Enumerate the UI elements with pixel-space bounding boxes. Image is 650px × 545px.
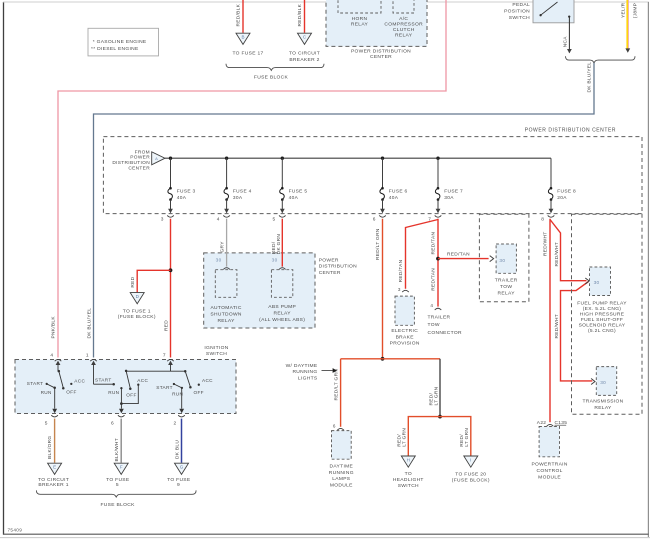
svg-text:POWER: POWER [319, 257, 339, 263]
pin 30 of trailer tow relay [490, 256, 494, 262]
svg-text:SWITCH: SWITCH [398, 483, 419, 489]
svg-text:LT GRN: LT GRN [464, 428, 470, 447]
svg-text:TO FUSE 1: TO FUSE 1 [123, 308, 151, 314]
svg-text:30A: 30A [233, 195, 243, 201]
svg-text:LT GRN: LT GRN [402, 428, 408, 447]
svg-text:6: 6 [373, 217, 376, 223]
electric brake provision box [395, 296, 414, 325]
svg-text:DAYTIME: DAYTIME [329, 463, 353, 469]
svg-text:DK BLU/YEL: DK BLU/YEL [587, 62, 593, 93]
svg-text:BREAKER 1: BREAKER 1 [38, 482, 68, 488]
svg-text:CONNECTOR: CONNECTOR [428, 330, 462, 336]
svg-text:SHUTDOWN: SHUTDOWN [210, 311, 242, 317]
switch 2 (pin 1) [93, 365, 95, 385]
svg-text:5: 5 [116, 482, 119, 488]
wire RED/LT GRN to headlight switch [408, 417, 440, 456]
fuse FUSE 3 40A [169, 157, 172, 160]
svg-text:BLK/WHT: BLK/WHT [114, 438, 120, 461]
svg-text:5: 5 [273, 217, 276, 223]
svg-text:RUNNING: RUNNING [329, 470, 354, 476]
svg-text:POWER: POWER [130, 155, 150, 161]
svg-text:2: 2 [174, 421, 177, 427]
svg-text:RED/LT GRN: RED/LT GRN [375, 228, 381, 260]
svg-text:BRAKE: BRAKE [396, 334, 415, 340]
svg-text:MODULE: MODULE [538, 474, 561, 480]
wire YEL/RED [626, 0, 628, 49]
wire GRY from fuse 4 [226, 219, 228, 267]
svg-text:RED/WHT: RED/WHT [542, 232, 548, 256]
svg-text:LAMPS: LAMPS [332, 476, 351, 482]
connector B [236, 33, 250, 44]
svg-text:HIGH PRESSURE: HIGH PRESSURE [580, 312, 625, 318]
pedal position switch box [533, 0, 574, 23]
svg-text:CENTER: CENTER [319, 270, 341, 276]
fuel pump relay box [590, 267, 611, 296]
svg-text:CLUTCH: CLUTCH [393, 27, 415, 33]
svg-text:RED/TAN: RED/TAN [398, 259, 404, 282]
wire RED/WHT from fuse 8 to powertrain control module [549, 219, 551, 423]
wire BLK/WHT to fuse 5 [120, 419, 122, 463]
svg-text:RUN: RUN [41, 390, 52, 395]
svg-text:9: 9 [177, 482, 180, 488]
svg-text:RED/BLK: RED/BLK [235, 3, 241, 26]
svg-text:START: START [27, 381, 44, 386]
daytime running lamps module box [332, 431, 352, 460]
svg-text:20A: 20A [557, 195, 567, 201]
svg-text:ACC: ACC [137, 378, 148, 383]
switch 3 contact link [174, 384, 182, 388]
svg-text:TO CIRCUIT: TO CIRCUIT [289, 50, 320, 56]
connector D [130, 293, 144, 304]
svg-text:AUTOMATIC: AUTOMATIC [210, 305, 241, 311]
switch 2 ACC branch [121, 385, 138, 404]
svg-text:LIGHTS: LIGHTS [298, 376, 318, 382]
pedal switch contacts and lever [539, 14, 541, 16]
fuse FUSE 7 30A [436, 157, 439, 160]
wire DK BLU to fuse 9 [181, 419, 183, 463]
arrow pointing to daytime wire [322, 370, 333, 372]
svg-text:RELAY: RELAY [594, 405, 612, 411]
pin 30 of ABS pump relay [279, 268, 286, 270]
svg-text:IGNITION: IGNITION [204, 345, 228, 351]
switch 1 output to pin 5 [54, 388, 56, 409]
power distribution center box (right relays) [572, 214, 643, 414]
svg-text:OFF: OFF [126, 393, 136, 398]
svg-text:TO FUSE: TO FUSE [106, 477, 130, 483]
pin 30 of transmission relay [591, 379, 595, 385]
svg-text:3: 3 [161, 217, 164, 223]
svg-text:30A: 30A [444, 195, 454, 201]
svg-text:40A: 40A [289, 195, 299, 201]
svg-text:** DIESEL ENGINE: ** DIESEL ENGINE [91, 46, 139, 52]
svg-text:RED/LT GRN: RED/LT GRN [333, 369, 339, 401]
svg-text:RED/TAN: RED/TAN [447, 251, 470, 257]
wire RED/LT GRN (drawn dark) down to junction [439, 359, 441, 417]
svg-text:RELAY: RELAY [395, 32, 413, 38]
svg-text:RED/: RED/ [428, 392, 434, 405]
svg-text:TO FUSE 20: TO FUSE 20 [455, 472, 486, 478]
svg-text:RUN: RUN [108, 390, 119, 395]
fuse block brace (bottom) [36, 490, 196, 497]
fuse FUSE 6 40A [381, 157, 384, 160]
node junction headlight feed [438, 415, 442, 419]
pin 3 of electric brake provision [402, 290, 409, 292]
svg-text:PROVISION: PROVISION [390, 340, 420, 346]
svg-text:TOW: TOW [500, 284, 512, 290]
svg-text:TRAILER: TRAILER [428, 314, 451, 320]
pin 4 trailer tow connector [435, 308, 442, 310]
svg-text:GRY: GRY [219, 241, 225, 253]
wire RED/BLK to circuit breaker 2 [304, 0, 306, 33]
svg-text:RELAY: RELAY [217, 318, 235, 324]
svg-text:OFF: OFF [66, 389, 76, 394]
svg-text:40A: 40A [389, 195, 399, 201]
svg-text:30: 30 [272, 258, 278, 263]
wire RED/TAN from fuse 7 to trailer tow connector [437, 219, 439, 307]
wire RED from fuse 3 to ignition switch pin 7 [170, 219, 172, 358]
svg-text:W/ DAYTIME: W/ DAYTIME [286, 363, 318, 369]
power distribution center box (main) [103, 137, 642, 214]
switch 2 pivot and lever [125, 370, 128, 373]
svg-text:FUSE 8: FUSE 8 [557, 188, 576, 194]
connector C [298, 33, 312, 44]
svg-text:NCA: NCA [563, 36, 569, 48]
connector F [114, 463, 128, 474]
ABS pump relay box [271, 270, 292, 298]
wire RED/TAN to trailer tow relay [438, 258, 489, 260]
svg-text:4: 4 [217, 217, 220, 223]
power distribution center box (relays) [204, 253, 315, 328]
svg-text:START: START [95, 378, 112, 383]
switch 1 contact link [47, 384, 55, 388]
svg-text:FUEL PUMP RELAY: FUEL PUMP RELAY [577, 301, 627, 307]
ignition switch box [15, 360, 236, 414]
wire RED/TAN branch to electric brake provision [406, 220, 439, 289]
svg-text:ACC: ACC [74, 378, 85, 383]
svg-text:TO CIRCUIT: TO CIRCUIT [38, 477, 69, 483]
svg-text:DK BLU/YEL: DK BLU/YEL [86, 308, 92, 339]
wire RED/BLK to fuse 17 [242, 0, 244, 33]
node junction daytime lights [381, 357, 385, 361]
svg-text:(FUSE BLOCK): (FUSE BLOCK) [452, 477, 490, 483]
wire PNK/BLK from top to ignition switch pin 4 [58, 0, 446, 358]
pin 7 of ignition switch [167, 359, 174, 361]
pin 4 of power distribution center [223, 215, 230, 217]
svg-text:7: 7 [163, 353, 166, 359]
pin 6 of daytime running lamps module [337, 428, 344, 430]
svg-text:6: 6 [111, 421, 114, 427]
svg-text:A22: A22 [537, 420, 547, 426]
brace joining NCA and YEL wires [566, 56, 636, 63]
bus wire [165, 157, 551, 159]
svg-text:RED/WHT: RED/WHT [554, 242, 560, 266]
svg-text:OFF: OFF [194, 390, 204, 395]
wire RED/LT GRN to fuse 20 [440, 417, 471, 456]
power distribution center box (top) [326, 0, 427, 46]
svg-text:DISTRIBUTION: DISTRIBUTION [319, 264, 357, 270]
svg-text:DISTRIBUTION: DISTRIBUTION [112, 160, 150, 166]
svg-text:4: 4 [50, 353, 53, 359]
svg-text:40A: 40A [177, 195, 187, 201]
svg-text:30: 30 [594, 280, 600, 285]
fuse FUSE 8 20A [550, 158, 552, 187]
svg-text:30: 30 [216, 258, 222, 263]
pin A22 / C135 of powertrain control module [547, 424, 554, 426]
pin 7 of power distribution center [435, 215, 442, 217]
connector H [401, 456, 415, 467]
svg-text:B: B [241, 35, 244, 40]
wire RED/DK GRN from fuse 5 [281, 219, 283, 267]
switch 1 (pin 4) [57, 365, 59, 372]
svg-text:COMPRESSOR: COMPRESSOR [384, 22, 423, 28]
powertrain control module box [539, 427, 559, 457]
legend note box [88, 28, 159, 56]
svg-text:(J8MP: (J8MP [632, 3, 638, 18]
svg-text:PEDAL: PEDAL [512, 2, 530, 8]
svg-text:ABS PUMP: ABS PUMP [268, 304, 296, 310]
svg-text:E: E [53, 465, 56, 470]
svg-text:FUSE BLOCK: FUSE BLOCK [101, 502, 136, 508]
svg-text:POWER DISTRIBUTION: POWER DISTRIBUTION [351, 49, 411, 55]
wire NCA [568, 17, 570, 53]
fuse FUSE 4 30A [225, 157, 228, 160]
pin 3 of power distribution center [167, 215, 174, 217]
svg-text:RED/: RED/ [459, 434, 465, 447]
svg-text:TRANSMISSION: TRANSMISSION [582, 398, 623, 404]
svg-text:ACC: ACC [202, 378, 213, 383]
connector E [48, 463, 62, 474]
svg-text:POWERTRAIN: POWERTRAIN [531, 462, 567, 468]
fuse FUSE 5 40A [281, 157, 284, 160]
svg-text:30: 30 [499, 258, 505, 263]
svg-text:H: H [407, 457, 410, 462]
svg-text:TOW: TOW [428, 322, 440, 328]
fuse block brace (top) [226, 64, 324, 71]
svg-text:(EX. 5.2L CNG): (EX. 5.2L CNG) [583, 306, 622, 312]
svg-text:RED/WHT: RED/WHT [554, 314, 560, 338]
svg-text:RED/TAN: RED/TAN [431, 231, 437, 254]
switch 3 (pin 7) [170, 365, 172, 372]
svg-text:ELECTRIC: ELECTRIC [391, 328, 418, 334]
svg-text:4: 4 [430, 303, 433, 308]
A/C compressor clutch relay box [393, 0, 414, 13]
wire RED branch to fuse 1 [137, 270, 170, 292]
svg-text:FUEL SHUT-OFF: FUEL SHUT-OFF [581, 317, 623, 323]
svg-text:TO FUSE 17: TO FUSE 17 [232, 50, 263, 56]
svg-text:FUSE 7: FUSE 7 [444, 188, 463, 194]
svg-text:CONTROL: CONTROL [537, 468, 563, 474]
svg-text:1: 1 [86, 353, 89, 359]
node junction on RED wire [169, 268, 173, 272]
svg-text:RELAY: RELAY [498, 290, 516, 296]
svg-text:A: A [155, 156, 158, 161]
wire DK BLU/YEL from brace to ignition switch pin 1 [94, 63, 595, 358]
svg-text:SWITCH: SWITCH [206, 351, 227, 357]
svg-text:CENTER: CENTER [370, 54, 392, 60]
svg-text:F: F [120, 465, 123, 470]
svg-text:MODULE: MODULE [330, 483, 353, 489]
svg-text:DK BLU: DK BLU [175, 440, 181, 459]
pin 5 of power distribution center [279, 215, 286, 217]
svg-text:RELAY: RELAY [351, 22, 369, 28]
svg-text:8: 8 [541, 217, 544, 223]
svg-text:I: I [470, 457, 471, 462]
svg-text:* GASOLINE ENGINE: * GASOLINE ENGINE [93, 39, 147, 45]
connector A (from power distribution center) [152, 152, 165, 165]
pin 8 of power distribution center [548, 215, 555, 217]
svg-text:FUSE 6: FUSE 6 [389, 188, 408, 194]
svg-text:3: 3 [398, 287, 401, 292]
svg-text:RED/BLK: RED/BLK [297, 3, 303, 26]
connector I [464, 456, 478, 467]
svg-text:6: 6 [333, 423, 336, 428]
svg-text:RED: RED [163, 320, 169, 331]
svg-text:HORN: HORN [352, 16, 368, 22]
svg-text:HEADLIGHT: HEADLIGHT [393, 477, 424, 483]
horn relay box [338, 0, 381, 13]
switch 3 output to pin 2 [181, 388, 183, 409]
svg-text:DK GRN: DK GRN [276, 234, 282, 255]
svg-text:BLK/ORG: BLK/ORG [47, 436, 53, 459]
svg-text:SWITCH: SWITCH [509, 15, 530, 21]
svg-text:RELAY: RELAY [274, 310, 292, 316]
svg-text:RED/TAN: RED/TAN [431, 268, 437, 291]
svg-text:TO FUSE: TO FUSE [167, 477, 191, 483]
svg-text:SOLENOID RELAY: SOLENOID RELAY [579, 323, 626, 329]
svg-text:YEL/R: YEL/R [620, 2, 626, 18]
svg-text:5: 5 [45, 421, 48, 427]
page border frame [3, 2, 5, 535]
bus between switches 2 and 3 [126, 370, 185, 372]
wire RED/LT GRN horizontal [341, 358, 440, 360]
svg-text:FUSE 5: FUSE 5 [289, 188, 308, 194]
svg-text:RED/: RED/ [271, 241, 277, 254]
svg-text:PNK/BLK: PNK/BLK [51, 316, 57, 339]
wire RED/LT GRN from fuse 6 [382, 219, 384, 359]
svg-text:RED: RED [130, 276, 136, 287]
wire BLK/ORG to circuit breaker 1 [54, 419, 56, 463]
trailer tow relay box [496, 244, 516, 273]
svg-text:A/C: A/C [399, 16, 408, 22]
svg-text:(5.2L CNG): (5.2L CNG) [588, 328, 616, 334]
svg-text:G: G [180, 465, 184, 470]
pin 1 of ignition switch [90, 359, 97, 361]
pin 4 of ignition switch [55, 359, 62, 361]
svg-text:FUSE 4: FUSE 4 [233, 188, 252, 194]
trailer tow relay outer box [479, 214, 529, 302]
svg-text:(FUSE BLOCK): (FUSE BLOCK) [118, 314, 156, 320]
wire RED/LT GRN to daytime running lamps module [340, 359, 342, 427]
svg-text:START: START [156, 385, 173, 390]
svg-text:POWER DISTRIBUTION CENTER: POWER DISTRIBUTION CENTER [525, 127, 616, 133]
pin 30 of automatic shutdown relay [223, 268, 230, 270]
svg-text:BREAKER 2: BREAKER 2 [289, 57, 319, 63]
node junction RED/TAN [436, 257, 440, 261]
svg-text:LT GRN: LT GRN [434, 386, 440, 405]
pin 6 of power distribution center [379, 215, 386, 217]
svg-text:TRAILER: TRAILER [495, 277, 518, 283]
svg-text:FROM: FROM [135, 149, 150, 155]
svg-text:30: 30 [600, 380, 606, 385]
automatic shutdown relay box [215, 270, 237, 298]
transmission relay box [596, 367, 616, 396]
connector G [175, 463, 189, 474]
svg-text:RED/: RED/ [396, 434, 402, 447]
svg-text:FUSE 3: FUSE 3 [177, 188, 196, 194]
svg-text:75409: 75409 [8, 528, 23, 533]
pin 30 of fuel pump relay [585, 278, 589, 284]
svg-text:RUNNING: RUNNING [292, 369, 317, 375]
svg-text:FUSE BLOCK: FUSE BLOCK [254, 74, 289, 80]
svg-text:(ALL WHEEL ABS): (ALL WHEEL ABS) [259, 317, 305, 323]
wire RED/WHT to fuel pump relay [550, 220, 587, 281]
svg-text:CENTER: CENTER [128, 165, 150, 171]
svg-text:POSITION: POSITION [504, 9, 530, 15]
wire RED/WHT from fuel pump relay to transmission relay [561, 282, 593, 381]
svg-text:TO: TO [405, 471, 412, 477]
switch 2 output to pin 6 [120, 388, 122, 409]
